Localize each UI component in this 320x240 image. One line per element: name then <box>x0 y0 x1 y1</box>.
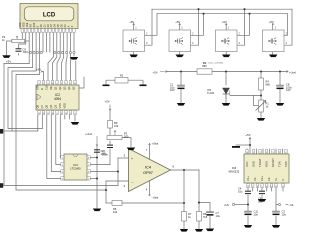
svg-text:7: 7 <box>252 186 253 188</box>
svg-text:3: 3 <box>47 83 48 85</box>
svg-text:+5V: +5V <box>105 100 110 104</box>
svg-text:VDD: VDD <box>24 22 26 27</box>
svg-text:14: 14 <box>275 186 277 188</box>
svg-text:500: 500 <box>124 134 129 138</box>
svg-text:9: 9 <box>261 186 262 188</box>
svg-text:866: 866 <box>266 82 271 86</box>
svg-text:VDD: VDD <box>63 103 67 109</box>
svg-text:R1IN: R1IN <box>265 161 269 167</box>
svg-text:QS: QS <box>49 104 53 108</box>
svg-text:IC7...IC10 = DS1820: IC7...IC10 = DS1820 <box>203 63 224 65</box>
svg-text:Q5: Q5 <box>72 86 76 90</box>
svg-text:Q1: Q1 <box>54 86 58 90</box>
svg-text:Q6: Q6 <box>36 104 40 108</box>
svg-text:STR: STR <box>36 85 40 90</box>
svg-text:12: 12 <box>42 113 44 115</box>
svg-text:+Ub: +Ub <box>224 203 229 207</box>
svg-text:VSS: VSS <box>20 22 22 27</box>
svg-text:4: 4 <box>62 179 63 181</box>
svg-text:−: − <box>131 181 133 185</box>
svg-text:2: 2 <box>279 152 280 154</box>
svg-text:2: 2 <box>70 113 71 115</box>
svg-text:Q7: Q7 <box>40 104 44 108</box>
svg-text:IC3: IC3 <box>73 163 78 167</box>
svg-text:6: 6 <box>88 172 89 174</box>
svg-text:VSS: VSS <box>58 103 62 108</box>
svg-text:13: 13 <box>38 113 40 115</box>
svg-text:C1-: C1- <box>253 177 257 181</box>
svg-text:Q4: Q4 <box>67 86 71 90</box>
svg-text:2: 2 <box>62 165 63 167</box>
svg-text:−Ub: −Ub <box>289 203 294 207</box>
svg-text:1: 1 <box>253 152 254 154</box>
svg-text:3: 3 <box>62 172 63 174</box>
svg-text:10: 10 <box>51 113 53 115</box>
svg-text:8: 8 <box>61 113 62 115</box>
svg-text:C2+: C2+ <box>260 176 264 181</box>
svg-text:16: 16 <box>65 113 67 115</box>
svg-text:10u: 10u <box>254 212 259 216</box>
svg-text:V-: V- <box>281 178 285 181</box>
svg-text:GND: GND <box>252 161 256 167</box>
svg-text:16: 16 <box>246 152 248 154</box>
svg-text:8: 8 <box>88 158 89 160</box>
svg-text:8: 8 <box>257 186 258 188</box>
svg-text:4: 4 <box>56 83 57 85</box>
svg-text:C1+: C1+ <box>246 176 250 181</box>
svg-text:+5V: +5V <box>36 67 41 71</box>
svg-text:IC4: IC4 <box>145 166 151 170</box>
svg-text:4: 4 <box>266 152 267 154</box>
svg-text:R1OUT: R1OUT <box>271 158 275 167</box>
svg-text:VCC: VCC <box>245 161 249 167</box>
svg-text:5: 5 <box>61 83 62 85</box>
svg-text:RS: RS <box>31 24 33 28</box>
svg-text:4: 4 <box>74 113 75 115</box>
svg-text:VEE: VEE <box>27 22 29 27</box>
svg-text:10k: 10k <box>113 210 118 214</box>
svg-text:+: + <box>131 157 133 161</box>
svg-text:+5V: +5V <box>246 133 251 137</box>
svg-text:T1IN: T1IN <box>278 161 282 167</box>
svg-text:6: 6 <box>285 152 286 154</box>
svg-text:QS: QS <box>54 104 58 108</box>
svg-text:16V: 16V <box>286 88 291 92</box>
svg-text:15: 15 <box>51 83 53 85</box>
svg-text:12: 12 <box>282 186 284 188</box>
svg-text:7: 7 <box>70 83 71 85</box>
svg-text:Q8: Q8 <box>45 104 49 108</box>
svg-text:OP97: OP97 <box>143 171 153 175</box>
svg-text:TL431: TL431 <box>207 91 215 95</box>
svg-text:+Ubat: +Ubat <box>152 143 159 146</box>
svg-text:−Ubat: −Ubat <box>152 197 159 200</box>
svg-text:D: D <box>40 88 44 90</box>
svg-text:+5V: +5V <box>6 60 11 64</box>
svg-text:+5V: +5V <box>153 71 158 75</box>
svg-text:13: 13 <box>270 186 272 188</box>
svg-text:9: 9 <box>56 113 57 115</box>
svg-text:OE: OE <box>49 86 53 90</box>
svg-text:5: 5 <box>272 152 273 154</box>
svg-text:3: 3 <box>259 152 260 154</box>
svg-text:6: 6 <box>65 83 66 85</box>
svg-text:LCD: LCD <box>43 13 56 19</box>
svg-text:1: 1 <box>62 158 63 160</box>
svg-text:1: 1 <box>38 83 39 85</box>
svg-text:10: 10 <box>266 186 268 188</box>
svg-text:T2IN: T2IN <box>284 161 288 167</box>
svg-text:14: 14 <box>74 83 76 85</box>
svg-text:10k: 10k <box>114 124 119 128</box>
svg-text:100n: 100n <box>102 152 108 156</box>
svg-text:866: 866 <box>202 64 207 68</box>
svg-text:Q2: Q2 <box>58 86 62 90</box>
svg-text:5: 5 <box>88 179 89 181</box>
svg-text:CLK: CLK <box>45 85 49 90</box>
svg-text:+Uref: +Uref <box>289 71 296 75</box>
svg-text:MAX232: MAX232 <box>229 170 240 174</box>
svg-text:Q3: Q3 <box>63 86 67 90</box>
svg-text:16V: 16V <box>170 88 175 92</box>
svg-text:7: 7 <box>88 165 89 167</box>
svg-text:+5V: +5V <box>129 20 134 24</box>
svg-text:100n: 100n <box>23 50 29 54</box>
svg-text:10u: 10u <box>238 189 243 193</box>
svg-text:C2-: C2- <box>267 177 271 181</box>
svg-text:15: 15 <box>247 186 249 188</box>
svg-text:10u: 10u <box>216 214 221 218</box>
svg-text:2: 2 <box>43 83 44 85</box>
svg-text:4094: 4094 <box>54 97 61 101</box>
svg-text:+Uref: +Uref <box>85 132 92 136</box>
svg-text:T1OUT: T1OUT <box>258 158 262 167</box>
svg-text:10u: 10u <box>282 212 287 216</box>
svg-text:LTC2400: LTC2400 <box>70 168 81 171</box>
svg-text:V+: V+ <box>274 177 278 181</box>
svg-text:R2: R2 <box>120 74 124 78</box>
svg-text:11: 11 <box>47 113 49 115</box>
